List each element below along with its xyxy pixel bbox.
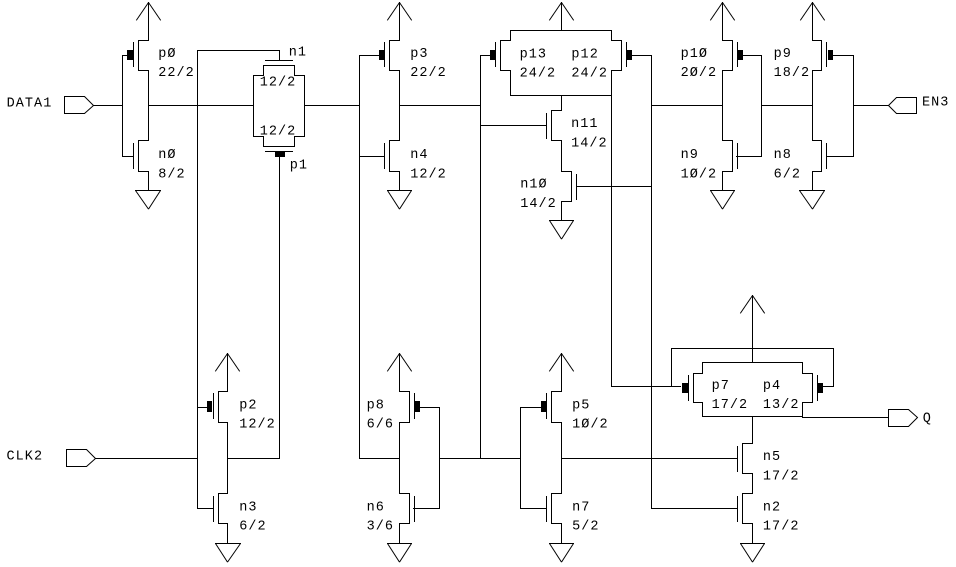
power VDD p5 <box>549 354 561 372</box>
pmos p4 13/2 <box>802 363 804 374</box>
svg-text:8/2: 8/2 <box>158 167 185 182</box>
svg-text:p1Ø: p1Ø <box>681 47 708 62</box>
ground n9 <box>722 172 724 191</box>
svg-text:p3: p3 <box>410 47 428 62</box>
svg-text:14/2: 14/2 <box>571 136 608 151</box>
ground n2 <box>752 524 754 544</box>
wire p7/p4 source rail <box>703 362 803 364</box>
svg-text:pØ: pØ <box>158 47 176 62</box>
svg-text:n1Ø: n1Ø <box>520 178 547 193</box>
power VDD p8 <box>387 354 399 372</box>
svg-text:17/2: 17/2 <box>763 469 800 484</box>
power VDD p10 <box>710 3 722 21</box>
svg-text:12/2: 12/2 <box>260 75 297 90</box>
svg-text:17/2: 17/2 <box>763 520 800 535</box>
svg-text:n7: n7 <box>572 500 590 515</box>
ground n3 <box>227 524 229 544</box>
svg-text:14/2: 14/2 <box>520 197 557 212</box>
nmos n3 6/2 <box>227 423 229 494</box>
svg-text:n2: n2 <box>763 500 781 515</box>
svg-text:p1: p1 <box>290 158 308 173</box>
svg-text:13/2: 13/2 <box>763 398 800 413</box>
wire p8/n6 gates to p5/n7 gate bus <box>440 458 521 460</box>
ground n10 <box>561 202 563 221</box>
wire p2/n3 output <box>228 458 280 460</box>
svg-text:n1: n1 <box>289 46 307 61</box>
svg-text:6/6: 6/6 <box>367 418 394 433</box>
power VDD p3 <box>387 3 399 21</box>
wire inverter2 gate bus <box>359 56 361 459</box>
svg-text:p7: p7 <box>712 379 730 394</box>
wire p7/p4 drain rail <box>703 416 803 418</box>
nmos n10 14/2 <box>561 141 563 172</box>
svg-text:1Ø/2: 1Ø/2 <box>572 418 609 433</box>
svg-text:Q: Q <box>923 411 932 426</box>
nmos n6 3/6 <box>399 423 401 494</box>
wire inverter1 gate bus <box>122 56 124 157</box>
wire p10/n9 gate bus <box>761 56 763 157</box>
svg-text:p5: p5 <box>572 398 590 413</box>
svg-text:p9: p9 <box>774 47 792 62</box>
svg-text:22/2: 22/2 <box>410 66 447 81</box>
wire tgate left bracket <box>253 76 255 137</box>
svg-text:n3: n3 <box>239 500 257 515</box>
wire slave gate bus <box>651 56 653 509</box>
svg-text:n8: n8 <box>774 148 792 163</box>
wire tgate output <box>305 105 360 107</box>
wire n1 gate from clk bus <box>198 50 280 52</box>
svg-text:p4: p4 <box>763 379 781 394</box>
pmos p7 17/2 <box>702 363 704 374</box>
svg-text:n5: n5 <box>763 450 781 465</box>
wire Q output <box>803 417 889 419</box>
ground n0 <box>148 172 150 191</box>
svg-text:p13: p13 <box>520 47 547 62</box>
wire p4 gate wire <box>823 386 834 388</box>
svg-text:p8: p8 <box>367 398 385 413</box>
power VDD p13 p12 <box>549 3 561 21</box>
svg-text:24/2: 24/2 <box>571 67 608 82</box>
wire p13/p12 source rail <box>511 30 612 32</box>
svg-text:EN3: EN3 <box>922 95 949 110</box>
pmos p12 24/2 <box>611 31 613 41</box>
nmos n2 17/2 <box>752 474 754 494</box>
svg-text:18/2: 18/2 <box>774 66 811 81</box>
pmos p5 10/2 <box>552 391 562 393</box>
wire slave node to p10/n9 <box>652 105 723 107</box>
svg-text:DATA1: DATA1 <box>7 96 53 111</box>
ground n8 <box>812 172 814 191</box>
wire drain rail to p7 gate <box>611 96 613 387</box>
svg-text:p12: p12 <box>571 47 598 62</box>
nmos n7 5/2 <box>561 423 563 494</box>
port EN3 <box>889 98 917 114</box>
wire DATA1 to inverter1 gate <box>94 105 123 107</box>
svg-text:22/2: 22/2 <box>158 66 195 81</box>
power VDD p2 <box>215 354 227 372</box>
wire p7 gate wire <box>612 386 681 388</box>
nmos n1 12/2 (tgate top) <box>266 60 293 62</box>
nmos n8 6/2 <box>812 71 814 141</box>
ground n6 <box>399 524 401 544</box>
wire keeper output to master bus <box>360 458 400 460</box>
nmos n11 14/2 <box>561 96 563 111</box>
svg-text:nØ: nØ <box>158 148 176 163</box>
svg-text:n4: n4 <box>410 148 428 163</box>
svg-text:12/2: 12/2 <box>260 124 297 139</box>
wire p1 gate stem <box>279 158 281 459</box>
pmos p10 20/2 <box>723 40 733 42</box>
port Q <box>889 410 918 427</box>
wire CLK2 to clk bus <box>96 458 198 460</box>
nmos n0 8/2 <box>148 71 150 141</box>
wire tgate right bracket <box>304 76 306 137</box>
pmos p8 6/6 <box>400 391 410 393</box>
svg-text:n9: n9 <box>681 148 699 163</box>
wire p5/n7 output to n5 gate <box>562 458 737 460</box>
wire p7/p4 gate loop <box>672 348 834 350</box>
svg-text:3/6: 3/6 <box>367 520 394 535</box>
wire inverter1 output <box>149 105 254 107</box>
wire p5/n7 gate bus <box>520 408 522 509</box>
svg-text:6/2: 6/2 <box>774 167 801 182</box>
svg-text:p2: p2 <box>239 398 257 413</box>
wire p10 gate to p9/n8 drains <box>762 105 813 107</box>
wire node mbar bus <box>480 56 482 459</box>
pmos p2 12/2 <box>219 391 228 393</box>
pmos p1 12/2 (tgate bottom) <box>254 136 264 138</box>
power VDD p0 <box>136 3 148 21</box>
power VDD p9 <box>800 3 812 21</box>
nmos n4 12/2 <box>399 71 401 141</box>
pmos p13 24/2 <box>510 31 512 41</box>
ground n4 <box>399 172 401 191</box>
power VDD p7 p4 <box>740 296 752 314</box>
wire p8/n6 gate bus <box>439 408 441 509</box>
svg-text:12/2: 12/2 <box>239 418 276 433</box>
pmos p9 18/2 <box>813 40 822 42</box>
svg-text:17/2: 17/2 <box>712 398 749 413</box>
svg-text:CLK2: CLK2 <box>7 449 44 464</box>
wire EN3 to p9/n8 gates <box>854 105 889 107</box>
pmos p0 22/2 <box>139 40 149 42</box>
wire inverter2 output <box>400 105 481 107</box>
svg-text:12/2: 12/2 <box>410 167 447 182</box>
svg-text:2Ø/2: 2Ø/2 <box>681 66 718 81</box>
nmos n9 10/2 <box>722 71 724 141</box>
svg-text:24/2: 24/2 <box>520 67 557 82</box>
wire p9/n8 gate bus <box>853 56 855 157</box>
svg-text:n6: n6 <box>367 500 385 515</box>
pmos p3 22/2 <box>390 40 400 42</box>
wire p7/p4 output stem <box>752 417 754 444</box>
ground n7 <box>561 524 563 544</box>
svg-text:1Ø/2: 1Ø/2 <box>681 167 718 182</box>
wire p13/p12 drain rail <box>511 95 612 97</box>
svg-text:5/2: 5/2 <box>572 520 599 535</box>
wire clk gate bus <box>197 51 199 509</box>
svg-text:n11: n11 <box>571 117 598 132</box>
nmos n5 17/2 <box>743 443 753 445</box>
svg-text:6/2: 6/2 <box>239 520 266 535</box>
